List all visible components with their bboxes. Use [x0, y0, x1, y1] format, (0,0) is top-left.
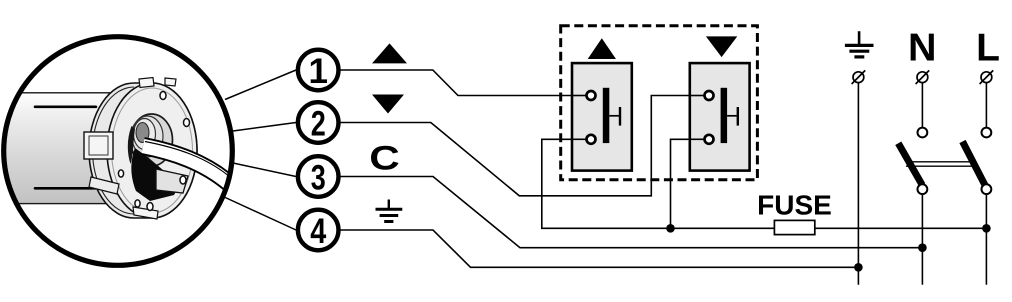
up switch wire stubs: [572, 95, 587, 97]
up switch lower terminal: [587, 135, 596, 144]
earth screw terminal: [852, 70, 866, 84]
down switch actuator: [727, 115, 738, 117]
svg-text:N: N: [908, 26, 937, 69]
svg-text:L: L: [976, 26, 1000, 69]
L switch lower contact: [982, 184, 992, 194]
motor head front face: [107, 83, 197, 218]
up-arrow label for wire 1: [372, 43, 407, 63]
up switch contact bar: [603, 88, 610, 143]
cable centre line: [145, 142, 230, 178]
lower step clip: [89, 177, 119, 194]
earth symbol (supply): [845, 31, 874, 57]
svg-text:C: C: [369, 140, 400, 178]
junction earth wire: [854, 263, 863, 272]
N screw terminal: [916, 70, 930, 84]
wire from right switch lower terminal: [671, 139, 702, 228]
screw hole: [135, 200, 140, 207]
screw hole: [118, 170, 123, 177]
junction fuse line to L: [982, 224, 991, 233]
motor pin bottom: [35, 187, 96, 190]
head top tab 2: [165, 78, 176, 86]
down switch box: [690, 63, 750, 171]
L switch upper contact: [982, 128, 992, 138]
face inner ring: [112, 88, 193, 213]
L upper wire: [985, 83, 987, 128]
N switch blade: [898, 143, 922, 185]
hole concentric arc 2: [134, 119, 156, 150]
L switch blade: [963, 142, 985, 186]
screw hole: [184, 119, 190, 127]
motor cable: [143, 146, 230, 184]
svg-text:2: 2: [311, 105, 326, 144]
wire 1: [339, 70, 585, 96]
wire 4 (earth): [339, 230, 858, 267]
motor illustration backing disc: [4, 37, 233, 266]
fuse body: [774, 220, 814, 234]
wire from left switch lower terminal to fuse line: [542, 139, 987, 228]
down-arrow label for wire 2: [372, 95, 404, 114]
screw hole: [180, 176, 186, 184]
svg-text:3: 3: [311, 159, 326, 198]
junction C wire to N: [918, 243, 927, 252]
node 3 circle: [298, 156, 339, 197]
svg-text:FUSE: FUSE: [757, 189, 832, 220]
head centre hole outer ring: [131, 114, 173, 166]
motor tube: [0, 93, 120, 204]
leader line to node 1: [225, 70, 296, 100]
junction right switch to fuse line: [666, 224, 675, 233]
screw hole: [147, 203, 153, 211]
down switch upper terminal: [705, 91, 714, 100]
opening foot slab: [156, 169, 188, 193]
down-arrow above down switch: [706, 36, 737, 57]
earth wire: [857, 83, 859, 285]
N upper wire: [921, 83, 923, 128]
hole concentric arc: [132, 116, 163, 157]
leader line to node 3: [233, 163, 296, 177]
node 2 circle: [298, 102, 339, 143]
svg-text:4: 4: [310, 212, 326, 251]
motor enclosure circle: [4, 37, 233, 266]
switch linkage: [906, 161, 974, 163]
up switch actuator: [609, 115, 620, 117]
wire 3 (C): [339, 177, 922, 248]
motor pin top: [35, 106, 96, 109]
wire 2: [339, 96, 701, 196]
grommet inner hole: [136, 123, 149, 143]
earth label at node 4: [376, 200, 403, 222]
node 1 circle: [298, 50, 339, 91]
dashed switch enclosure: [561, 26, 758, 180]
L lower wire: [985, 194, 987, 285]
N lower wire: [921, 194, 923, 285]
leader line to node 4: [222, 196, 296, 230]
svg-text:1: 1: [308, 52, 327, 91]
screw hole: [160, 92, 166, 100]
N switch lower contact: [918, 184, 928, 194]
head top tab: [139, 78, 154, 88]
down switch wire stubs: [690, 95, 705, 97]
node 4 circle: [298, 210, 339, 251]
up-arrow above up switch: [588, 38, 616, 59]
dark crescent left of arch: [128, 126, 135, 164]
up switch upper terminal: [587, 91, 596, 100]
L screw terminal: [980, 70, 994, 84]
leader line to node 2: [233, 123, 296, 132]
down switch contact bar: [721, 88, 728, 143]
motor head crown body: [89, 83, 197, 218]
dark cable opening wedge: [131, 148, 183, 201]
down switch lower terminal: [705, 135, 714, 144]
crown left rim double arc: [92, 87, 134, 214]
up switch box: [572, 63, 632, 171]
crown bottom notch: [133, 207, 158, 219]
latch clip on crown left: [84, 132, 113, 159]
N switch upper contact: [918, 128, 928, 138]
